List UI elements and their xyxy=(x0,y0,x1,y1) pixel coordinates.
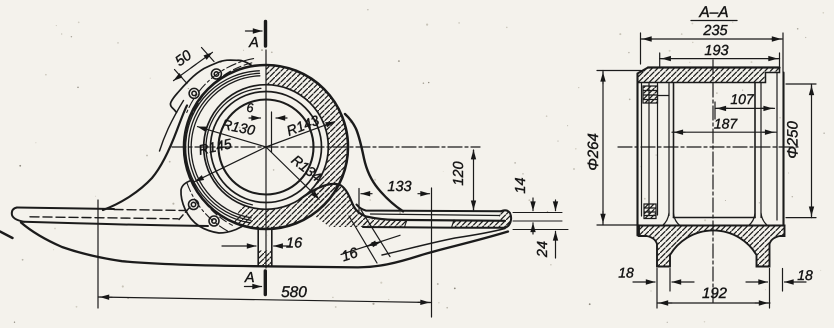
dimension 580 xyxy=(98,200,432,308)
svg-text:18: 18 xyxy=(797,267,813,283)
svg-text:Φ250: Φ250 xyxy=(785,121,802,159)
left inner wall pair xyxy=(668,84,670,216)
radius leader R130 xyxy=(198,116,267,147)
svg-text:24: 24 xyxy=(535,241,551,258)
left pad hidden top edge dashed xyxy=(114,210,187,211)
right pad tip hatch xyxy=(499,211,511,228)
left cover step arc R76.5 xyxy=(186,71,260,223)
central rib left edge xyxy=(257,228,259,267)
bolt circle dashed arc upper xyxy=(192,63,251,115)
hatch inner boundary circle xyxy=(204,85,329,210)
rib section upper curve xyxy=(300,184,506,221)
wing rear inner curve xyxy=(382,229,505,256)
right pad hatch band left xyxy=(363,219,407,227)
right pad hatch band right xyxy=(452,220,500,228)
middle ring circle xyxy=(211,92,322,203)
svg-text:187: 187 xyxy=(714,116,739,132)
left pad hidden mid line dashed xyxy=(30,217,178,219)
bolt circle dashdot arc upper xyxy=(187,59,254,114)
hatched annulus section of boss xyxy=(234,65,348,229)
section plane mark top xyxy=(246,22,266,52)
dimension 235 xyxy=(641,23,784,73)
section A-A title xyxy=(691,4,737,21)
svg-text:120: 120 xyxy=(451,161,467,185)
svg-text:235: 235 xyxy=(702,23,728,39)
dimension 120 xyxy=(451,150,474,210)
central rib hatch xyxy=(258,251,272,266)
left wing inner edge line xyxy=(160,101,184,152)
left view vertical centerline xyxy=(265,50,267,268)
bolt hole 1 xyxy=(211,69,221,79)
dimension phi264 xyxy=(585,71,641,226)
svg-text:14: 14 xyxy=(513,177,529,193)
radius leader R145 xyxy=(195,135,266,181)
svg-text:R145: R145 xyxy=(197,135,233,158)
bore circle xyxy=(219,100,314,195)
dimension 14 xyxy=(513,177,533,234)
radius leader R134 xyxy=(266,147,325,199)
left pad hidden end dashed xyxy=(179,207,190,220)
right pad tip xyxy=(501,210,511,227)
left pad bottom edge xyxy=(24,222,208,226)
boss outer circle R145 xyxy=(184,65,348,229)
bolt hole 4 xyxy=(209,216,219,226)
flange top line xyxy=(639,225,785,227)
lower bolt flange outline xyxy=(181,181,242,234)
svg-text:50: 50 xyxy=(172,48,194,70)
dimension 50 xyxy=(172,48,214,84)
right wall outer lines xyxy=(776,73,778,221)
right pad top edge xyxy=(357,205,502,212)
svg-text:A: A xyxy=(244,270,255,286)
left cover step arc R74 xyxy=(188,73,259,220)
scan edge artifact xyxy=(0,232,13,239)
svg-text:R143: R143 xyxy=(284,112,321,139)
svg-text:A–A: A–A xyxy=(698,4,728,21)
dimension 18 left xyxy=(618,265,694,309)
dimension 16 diagonal rib xyxy=(340,210,400,265)
dimension 192 xyxy=(657,285,770,303)
right pad second line xyxy=(371,214,500,216)
left cover step arc R71.5 xyxy=(191,76,260,218)
svg-text:193: 193 xyxy=(704,43,728,59)
cap left chamfer xyxy=(638,68,649,74)
dimension 16 central rib xyxy=(222,236,303,252)
left view horizontal centerline xyxy=(172,146,480,148)
svg-text:A: A xyxy=(248,35,259,51)
svg-text:18: 18 xyxy=(618,265,634,281)
left cover land arc R59 xyxy=(206,88,261,204)
left wall inner line xyxy=(641,84,643,217)
bolt circle dashdot arc lower xyxy=(187,182,228,231)
dimension 187 xyxy=(672,116,776,133)
svg-text:16: 16 xyxy=(286,236,303,252)
dimension phi250 xyxy=(785,84,817,218)
inner wall to flange fillets xyxy=(663,213,768,226)
svg-text:133: 133 xyxy=(387,179,411,195)
body underbelly curve xyxy=(21,223,508,268)
left silhouette curve xyxy=(103,106,187,211)
bolt hole 2 xyxy=(189,88,199,98)
svg-text:580: 580 xyxy=(281,284,307,301)
bottom flange and legs hatched section xyxy=(639,226,785,267)
svg-text:192: 192 xyxy=(702,285,728,302)
central rib right edge xyxy=(271,228,273,267)
section view vertical centerline xyxy=(712,60,714,302)
dimension 107 xyxy=(715,91,775,119)
right pad band bottom edge xyxy=(363,226,505,229)
rib hatch region xyxy=(300,184,367,227)
dimension 6 xyxy=(247,101,287,118)
top snap ring block xyxy=(643,86,658,103)
section plane mark bottom xyxy=(244,270,265,295)
svg-text:16: 16 xyxy=(340,245,361,265)
svg-text:Φ264: Φ264 xyxy=(585,133,602,171)
cap underside and right step xyxy=(638,68,780,83)
left pad top edge xyxy=(17,208,114,210)
dimension 193 xyxy=(660,43,780,66)
svg-text:6: 6 xyxy=(247,101,254,115)
inner wall top step xyxy=(658,95,670,97)
offset bore centerline tick xyxy=(271,112,273,152)
bolt hole 3 xyxy=(189,200,199,210)
radius leader R143 xyxy=(266,112,335,147)
bottom snap ring block xyxy=(644,204,656,219)
upper bolt flange outline xyxy=(170,60,251,112)
right inner wall pair xyxy=(754,83,756,218)
pad tip reference lines xyxy=(513,213,568,230)
right pad band inner boundaries xyxy=(405,220,455,228)
svg-text:107: 107 xyxy=(730,91,755,107)
left sleeve line xyxy=(657,84,659,216)
left pad tip xyxy=(12,208,24,222)
left outer wall edge xyxy=(636,74,638,236)
dimension 18 right xyxy=(746,267,813,308)
bolt circle dashed arc lower xyxy=(193,181,233,226)
dimension 133 xyxy=(359,179,432,317)
section view horizontal centerline xyxy=(618,146,798,148)
bore bottom line xyxy=(674,217,756,219)
left wall second line xyxy=(648,84,650,216)
cap slab hatch xyxy=(638,68,780,83)
dimension 24 xyxy=(535,200,556,258)
right wing silhouette curve xyxy=(345,114,403,211)
cap top surface xyxy=(648,66,780,68)
